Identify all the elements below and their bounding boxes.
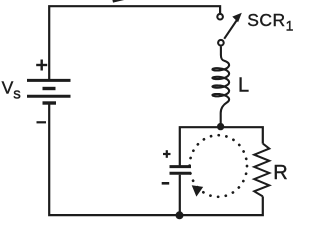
svg-text:R: R xyxy=(273,162,287,184)
svg-text:L: L xyxy=(238,75,249,97)
svg-text:SCR1: SCR1 xyxy=(247,10,294,34)
svg-text:Vs: Vs xyxy=(2,78,21,103)
